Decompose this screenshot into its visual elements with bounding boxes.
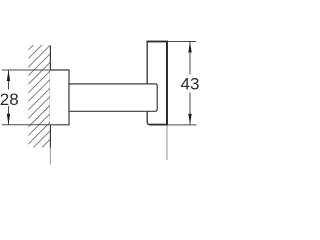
- dimension 28 top extension line: [2, 69, 50, 71]
- front plate of hook: [147, 42, 167, 125]
- front plate bottom edge (thick): [150, 124, 169, 126]
- wall surface line: [49, 46, 51, 148]
- dimension 43 arrow up: [188, 42, 191, 53]
- wall hatching: [0, 40, 149, 150]
- dimension 28 line: [8, 70, 10, 90]
- dimension 43 bottom extension line: [168, 124, 197, 126]
- reference line below plate: [166, 126, 168, 161]
- dimension 28 arrow up: [7, 70, 10, 81]
- dimension 43 arrow down: [188, 114, 191, 125]
- front plate top edge (thick): [147, 41, 169, 43]
- dimension 28 bottom extension line: [2, 124, 50, 126]
- dimension 28 arrow down: [7, 114, 10, 125]
- arm: [69, 84, 157, 111]
- wall flange block: [50, 70, 69, 125]
- dimension 43 top extension line: [168, 41, 196, 43]
- svg-text:43: 43: [181, 74, 200, 93]
- svg-text:28: 28: [0, 90, 19, 109]
- dimension 43 line: [189, 42, 191, 75]
- wall surface line extension below hatch: [49, 148, 51, 165]
- front plate right edge (thick): [166, 42, 168, 125]
